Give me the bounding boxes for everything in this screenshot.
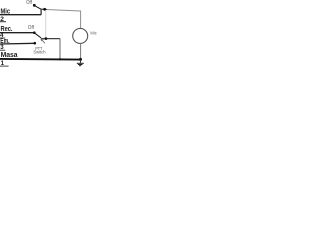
ground stub bbox=[80, 59, 82, 63]
wire capsule to ground junction bbox=[80, 43, 82, 59]
wire switch output to mic capsule bbox=[41, 9, 81, 11]
junction dot ground node bbox=[79, 58, 82, 61]
svg-text:Switch: Switch bbox=[33, 50, 45, 56]
switch lever S1b bbox=[35, 33, 41, 38]
underline pin 1 bbox=[0, 65, 9, 67]
riser wire to Mic line bbox=[40, 9, 42, 15]
junction dot Masa loop bbox=[59, 58, 61, 60]
junction dot top switch common bbox=[43, 8, 46, 11]
wire Mic pin2 bbox=[0, 14, 41, 16]
underline pin 2 bbox=[0, 21, 6, 23]
junction dot bottom switch common bbox=[45, 37, 48, 40]
svg-text:Mic: Mic bbox=[90, 30, 97, 35]
wire switch output to Masa loop bbox=[41, 38, 60, 40]
underline pin 4 bbox=[0, 37, 5, 39]
contact dot Off top bbox=[33, 4, 36, 7]
mechanical link (dashed) bbox=[45, 11, 47, 38]
switch lever S1a bbox=[35, 6, 41, 9]
svg-text:Off: Off bbox=[26, 0, 32, 6]
wire Rec pin4 bbox=[0, 32, 34, 34]
svg-text:Off: Off bbox=[28, 25, 35, 31]
contact dot Rec bbox=[33, 31, 36, 34]
underline pin 3 bbox=[0, 49, 5, 51]
background bbox=[0, 0, 100, 70]
contact dot Em bbox=[34, 42, 37, 45]
wire Em pin3 bbox=[0, 42, 35, 45]
ground symbol bbox=[77, 63, 84, 65]
wire Masa pin1 bbox=[0, 58, 81, 61]
arrow to PTT switch bbox=[41, 39, 45, 44]
wire down to capsule bbox=[80, 11, 82, 29]
wire down to Masa bbox=[59, 39, 61, 60]
microphone capsule bbox=[73, 28, 88, 43]
